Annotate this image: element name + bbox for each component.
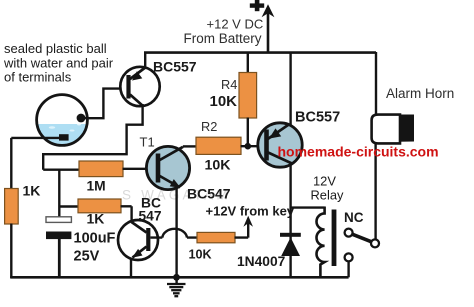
svg-text:BC557: BC557 <box>153 59 197 75</box>
ball lower terminal pad <box>59 134 69 140</box>
wire ball upper terminal to Q1 base <box>81 89 122 119</box>
svg-text:25V: 25V <box>74 249 100 265</box>
svg-text:100uF: 100uF <box>74 231 116 247</box>
wire relay branch from collector line <box>291 206 325 208</box>
svg-text:10K: 10K <box>210 93 238 110</box>
resistor R2 <box>196 137 241 154</box>
resistor 10K (bottom) <box>197 232 235 242</box>
svg-text:BC547: BC547 <box>187 186 231 202</box>
diode D1 1N4007 cathode bar <box>280 233 301 237</box>
label BC 547 Q2 <box>139 195 162 223</box>
wire R4 bottom to junction <box>247 118 249 147</box>
resistor 1K (left vertical) <box>5 189 19 225</box>
capacitor C1 100uF minus plate <box>46 232 71 240</box>
junction node R2/R4/Q3 base <box>245 143 252 150</box>
svg-text:+12 V DC: +12 V DC <box>207 17 264 32</box>
wire R2 right to junction <box>241 145 260 147</box>
svg-text:547: 547 <box>139 208 162 223</box>
resistor R4 <box>239 73 257 119</box>
svg-text:R2: R2 <box>201 119 217 134</box>
wire 1M right to T1 base <box>123 168 148 170</box>
svg-text:10K: 10K <box>205 158 232 174</box>
wire T1 emitter to ground <box>175 186 177 278</box>
wire R4 top lead <box>247 52 249 74</box>
svg-text:NC: NC <box>344 210 364 225</box>
bottom ground bus <box>10 276 348 279</box>
diode D1 1N4007 triangle <box>281 237 300 256</box>
wire drop to 1K and 100uF <box>58 170 60 218</box>
battery plus symbol <box>250 0 264 11</box>
transistor Q3 BC557 (relay driver) <box>258 123 302 167</box>
label 100uF 25V <box>74 231 116 265</box>
svg-text:with water and pair: with water and pair <box>3 56 114 71</box>
label sealed plastic ball note <box>3 41 114 85</box>
wire Q1 collector to junction of 1M / 1K / cap <box>43 104 144 170</box>
svg-text:1K: 1K <box>87 211 105 227</box>
wire top +12V bus <box>144 51 376 54</box>
svg-text:From Battery: From Battery <box>184 31 262 46</box>
wire Q2 emitter to ground bus <box>130 258 132 279</box>
relay coil <box>317 207 325 278</box>
alarm horn LS1 <box>372 115 414 144</box>
relay switch contact NO <box>345 253 353 261</box>
wire 1K to Q2 collector <box>121 206 132 222</box>
svg-text:BC557: BC557 <box>295 110 340 126</box>
svg-text:R4: R4 <box>221 77 237 92</box>
relay switch contact NC <box>345 229 353 237</box>
svg-text:+12V from key: +12V from key <box>206 204 295 219</box>
wire T1 collector to R2 <box>183 145 197 147</box>
wire BC557 Q3 emitter riser <box>289 52 291 126</box>
svg-text:homemade-circuits.com: homemade-circuits.com <box>278 144 439 160</box>
svg-text:1K: 1K <box>23 183 41 199</box>
svg-text:12V: 12V <box>313 174 336 189</box>
svg-text:1M: 1M <box>87 179 106 194</box>
wire 1K bottom to ground bus <box>10 224 12 279</box>
svg-text:sealed plastic ball: sealed plastic ball <box>4 41 107 56</box>
key arrow <box>243 216 253 227</box>
wire Q3 collector down through diode to bottom <box>289 163 291 278</box>
wire 10K to key arrow <box>235 221 249 238</box>
label 12V Relay <box>311 174 345 203</box>
wire ball lower terminal to 1K <box>11 138 60 189</box>
svg-text:10K: 10K <box>189 247 212 261</box>
svg-text:Relay: Relay <box>311 188 345 203</box>
ball sensor body <box>37 95 88 146</box>
svg-text:T1: T1 <box>140 135 155 150</box>
svg-text:1N4007: 1N4007 <box>237 254 286 269</box>
wire NO contact to bus <box>347 261 349 277</box>
ground symbol <box>167 277 186 296</box>
transistor Q1 BC557 (top left) <box>120 67 159 106</box>
wire cap bottom to ground bus <box>58 239 61 279</box>
wire horn to relay switch pole <box>374 143 376 240</box>
svg-text:of terminals: of terminals <box>4 70 72 85</box>
ball upper terminal dot <box>77 114 86 123</box>
wire 1K horizontal left lead <box>59 205 78 207</box>
resistor 1M <box>79 161 123 177</box>
transistor T1 BC547 <box>146 146 189 189</box>
transistor Q2 BC547 (small, mirrored) <box>118 220 158 260</box>
wire bus to alarm horn <box>375 52 377 116</box>
wire BC557 Q1 emitter riser <box>144 52 146 68</box>
wire Q2 base with hop over emitter line <box>151 229 198 238</box>
relay switch lever <box>352 234 371 242</box>
relay switch pole <box>371 239 379 247</box>
resistor 1K (horizontal) <box>78 199 121 213</box>
battery arrow <box>262 4 275 52</box>
capacitor C1 100uF plus plate <box>46 217 71 223</box>
relay core bar <box>332 210 337 267</box>
svg-text:Alarm Horn: Alarm Horn <box>386 86 454 101</box>
